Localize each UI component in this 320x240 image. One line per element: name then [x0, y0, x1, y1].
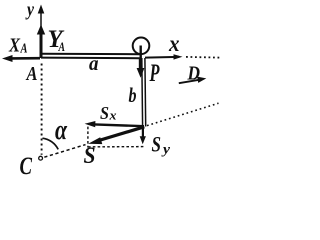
incline dashed line left segment (from C) [44, 145, 85, 158]
x axis line with arrow [145, 54, 183, 59]
direction arrow D [179, 77, 207, 84]
force arrow S (resultant along incline) [88, 127, 144, 144]
pulley circle [133, 38, 150, 55]
svg-text:α: α [55, 115, 67, 146]
beam a top line [41, 53, 140, 55]
svg-text:A: A [20, 42, 28, 57]
point C circle marker [39, 156, 43, 160]
dashed horizontal of component box [88, 146, 145, 148]
svg-text:a: a [89, 53, 99, 75]
svg-text:x: x [168, 31, 179, 56]
svg-text:X: X [8, 35, 20, 57]
vertical dotted line A to C [41, 64, 43, 155]
x axis dotted continuation [186, 56, 220, 59]
force arrow Y_A [37, 25, 45, 59]
rope b left line [141, 58, 144, 127]
svg-text:y: y [161, 143, 171, 158]
pulley axle pin [139, 46, 141, 59]
force arrow S_x [85, 121, 144, 127]
svg-text:A: A [58, 39, 65, 54]
svg-text:A: A [25, 63, 38, 85]
svg-text:x: x [108, 108, 117, 123]
svg-text:b: b [129, 83, 137, 107]
svg-text:S: S [100, 103, 109, 123]
force arrow P [137, 58, 145, 78]
svg-text:C: C [20, 153, 33, 180]
rope b right line [144, 58, 147, 127]
svg-text:y: y [25, 0, 34, 21]
dashed vertical of component box [87, 127, 89, 148]
beam a bottom line [41, 57, 140, 60]
svg-text:D: D [187, 62, 200, 84]
force arrow S_y [140, 127, 146, 144]
incline dotted line right segment (through S toward D) [147, 103, 219, 125]
y axis [38, 5, 45, 58]
angle alpha arc [43, 138, 59, 149]
svg-text:P: P [149, 60, 160, 87]
force arrow X_A [2, 55, 40, 62]
svg-text:S: S [152, 131, 162, 156]
